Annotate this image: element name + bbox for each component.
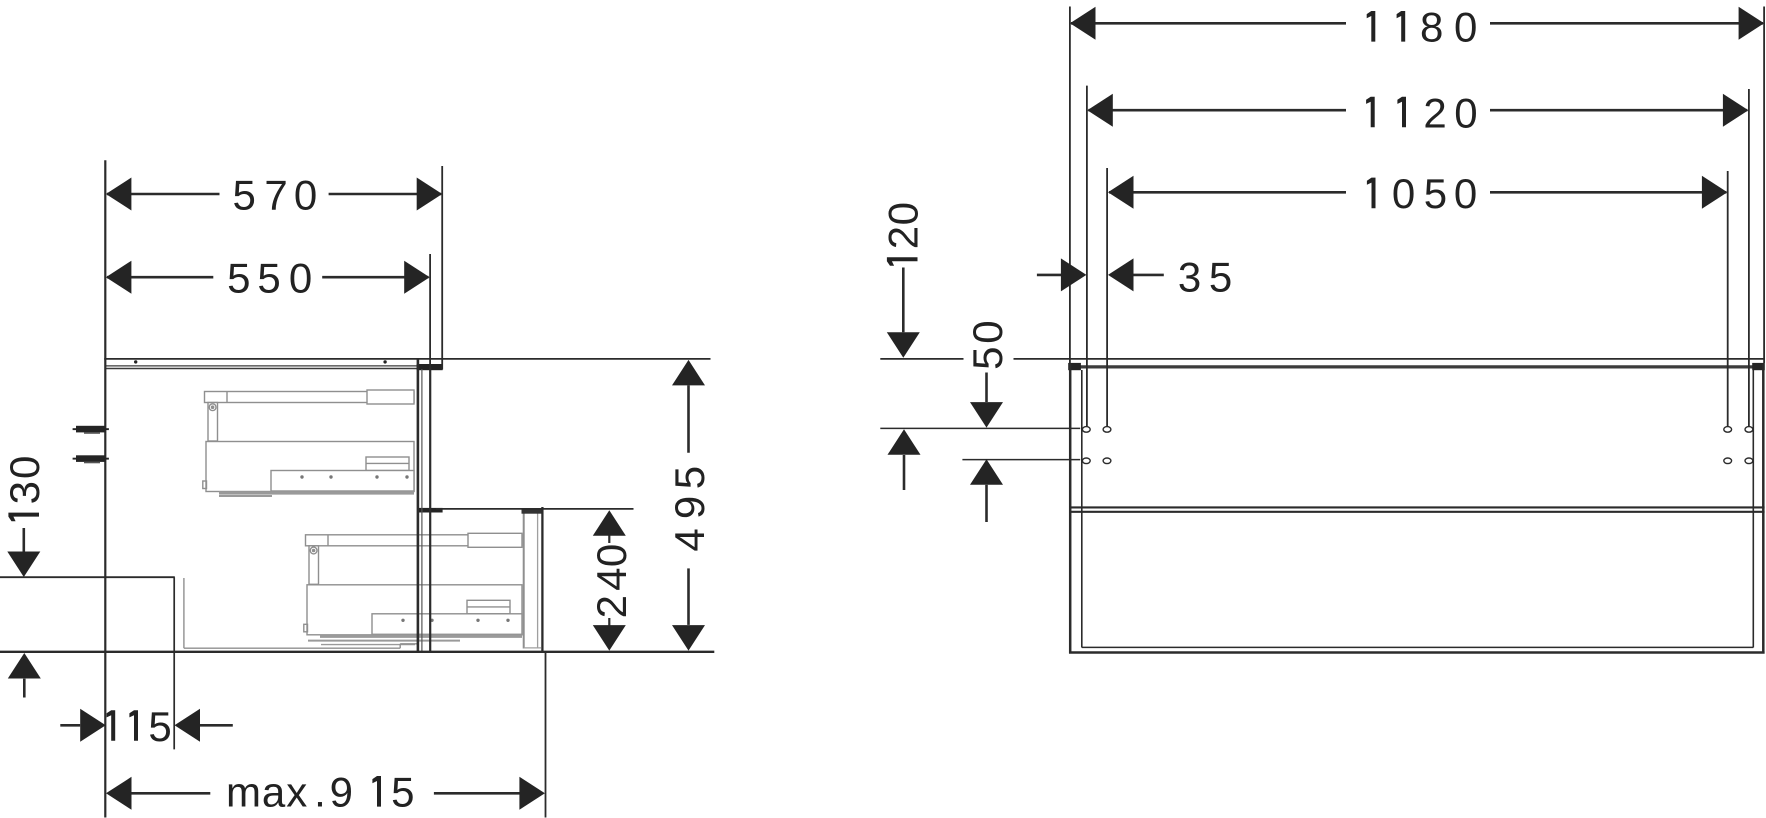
front view: drawer gap lines (1069, 507, 1765, 511)
side view: interior bottom panel (184, 578, 417, 648)
svg-text:0: 0 (1, 456, 48, 479)
svg-text:2: 2 (1423, 89, 1446, 136)
side view: lower drawer slide assembly (304, 533, 522, 644)
dimension max.915 (131, 652, 546, 818)
svg-text:0: 0 (1454, 170, 1477, 217)
dimension 50 (985, 373, 988, 523)
side view: lower drawer front panel (522, 507, 544, 652)
svg-text:5: 5 (233, 172, 256, 219)
svg-text:5: 5 (257, 255, 280, 302)
dimension 35 (1037, 274, 1164, 277)
svg-text:7: 7 (264, 172, 287, 219)
side view: countertop (104, 359, 710, 370)
svg-text:0: 0 (1454, 4, 1477, 51)
front view: carcass top rail (1070, 365, 1765, 368)
svg-text:0: 0 (880, 202, 927, 225)
svg-text:0: 0 (964, 320, 1011, 343)
svg-text:8: 8 (1420, 4, 1443, 51)
svg-text:0: 0 (1392, 170, 1415, 217)
svg-text:4: 4 (588, 568, 635, 591)
svg-text:4: 4 (666, 528, 713, 551)
svg-text:0: 0 (1454, 89, 1477, 136)
svg-text:3: 3 (1178, 253, 1201, 300)
LEFT SIDE VIEW (0, 160, 714, 817)
dimension 550 (107, 254, 430, 367)
svg-text:0: 0 (588, 544, 635, 567)
svg-text:0: 0 (294, 172, 317, 219)
svg-text:.: . (314, 769, 326, 816)
svg-text:9: 9 (666, 496, 713, 519)
svg-text:2: 2 (880, 226, 927, 249)
side view: carcass front panel lines (418, 359, 430, 652)
svg-text:5: 5 (964, 347, 1011, 370)
svg-text:2: 2 (588, 595, 635, 618)
svg-text:5: 5 (148, 703, 171, 750)
RIGHT FRONT VIEW (880, 4, 1766, 654)
svg-text:9: 9 (330, 769, 353, 816)
side view: drawer gap rail (black) (418, 508, 443, 513)
svg-text:m: m (226, 769, 261, 816)
front view: mounting holes (1082, 427, 1752, 464)
svg-text:0: 0 (289, 255, 312, 302)
front view: cabinet outline (1069, 364, 1765, 654)
side view: upper drawer slide assembly (203, 390, 414, 496)
front view: drawer front inset lines (1082, 370, 1754, 648)
svg-text:5: 5 (1209, 253, 1232, 300)
side view: plinth step (0, 577, 175, 749)
svg-text:5: 5 (391, 769, 414, 816)
side view: wall anchor screws (73, 426, 109, 464)
dimension 1120 (1087, 86, 1749, 427)
dimension 115 (60, 724, 233, 727)
dimension 570 (107, 166, 442, 370)
dimension 130 (22, 528, 25, 698)
svg-text:x: x (286, 769, 307, 816)
dimension 120 (902, 268, 905, 491)
svg-text:5: 5 (666, 466, 713, 489)
svg-text:3: 3 (1, 481, 48, 504)
dimension 240 (436, 509, 634, 626)
front view: top edge line (880, 358, 1765, 360)
dimension 1180 (1070, 7, 1764, 364)
side view: cabinet back panel (left edge) (104, 160, 106, 817)
svg-text:a: a (262, 769, 286, 816)
svg-text:5: 5 (227, 255, 250, 302)
front view: mounting hole leader lines (880, 428, 1080, 459)
dimension 1050 (1107, 168, 1728, 426)
side view: floor line (0, 651, 714, 653)
svg-text:5: 5 (1424, 170, 1447, 217)
dimension 495 (687, 385, 690, 625)
